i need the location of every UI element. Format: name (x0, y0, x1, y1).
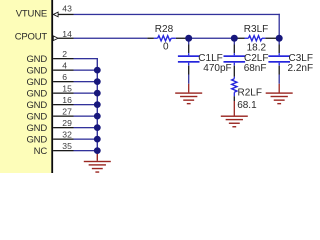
svg-text:29: 29 (62, 118, 72, 128)
svg-text:6: 6 (62, 72, 67, 82)
svg-text:43: 43 (62, 3, 72, 13)
svg-text:GND: GND (26, 54, 47, 65)
svg-text:2: 2 (62, 49, 67, 59)
svg-text:NC: NC (34, 146, 48, 157)
svg-text:16: 16 (62, 95, 72, 105)
svg-text:VTUNE: VTUNE (16, 9, 47, 20)
svg-text:GND: GND (26, 77, 47, 88)
svg-text:4: 4 (62, 61, 67, 71)
svg-text:GND: GND (26, 112, 47, 123)
svg-text:18.2: 18.2 (247, 42, 267, 53)
svg-text:GND: GND (26, 66, 47, 77)
svg-text:R3LF: R3LF (244, 24, 268, 35)
svg-text:35: 35 (62, 141, 72, 151)
svg-text:GND: GND (26, 100, 47, 111)
svg-text:GND: GND (26, 89, 47, 100)
svg-text:15: 15 (62, 84, 72, 94)
svg-text:32: 32 (62, 130, 72, 140)
svg-text:470pF: 470pF (203, 63, 231, 74)
svg-text:68.1: 68.1 (237, 100, 257, 111)
svg-text:2.2nF: 2.2nF (288, 63, 314, 74)
svg-text:68nF: 68nF (244, 63, 267, 74)
svg-text:R28: R28 (155, 24, 174, 35)
svg-text:14: 14 (62, 29, 72, 39)
svg-text:GND: GND (26, 123, 47, 134)
svg-text:0: 0 (163, 41, 169, 52)
svg-text:GND: GND (26, 135, 47, 146)
svg-text:27: 27 (62, 107, 72, 117)
svg-text:R2LF: R2LF (238, 87, 262, 98)
svg-text:CPOUT: CPOUT (15, 32, 48, 43)
